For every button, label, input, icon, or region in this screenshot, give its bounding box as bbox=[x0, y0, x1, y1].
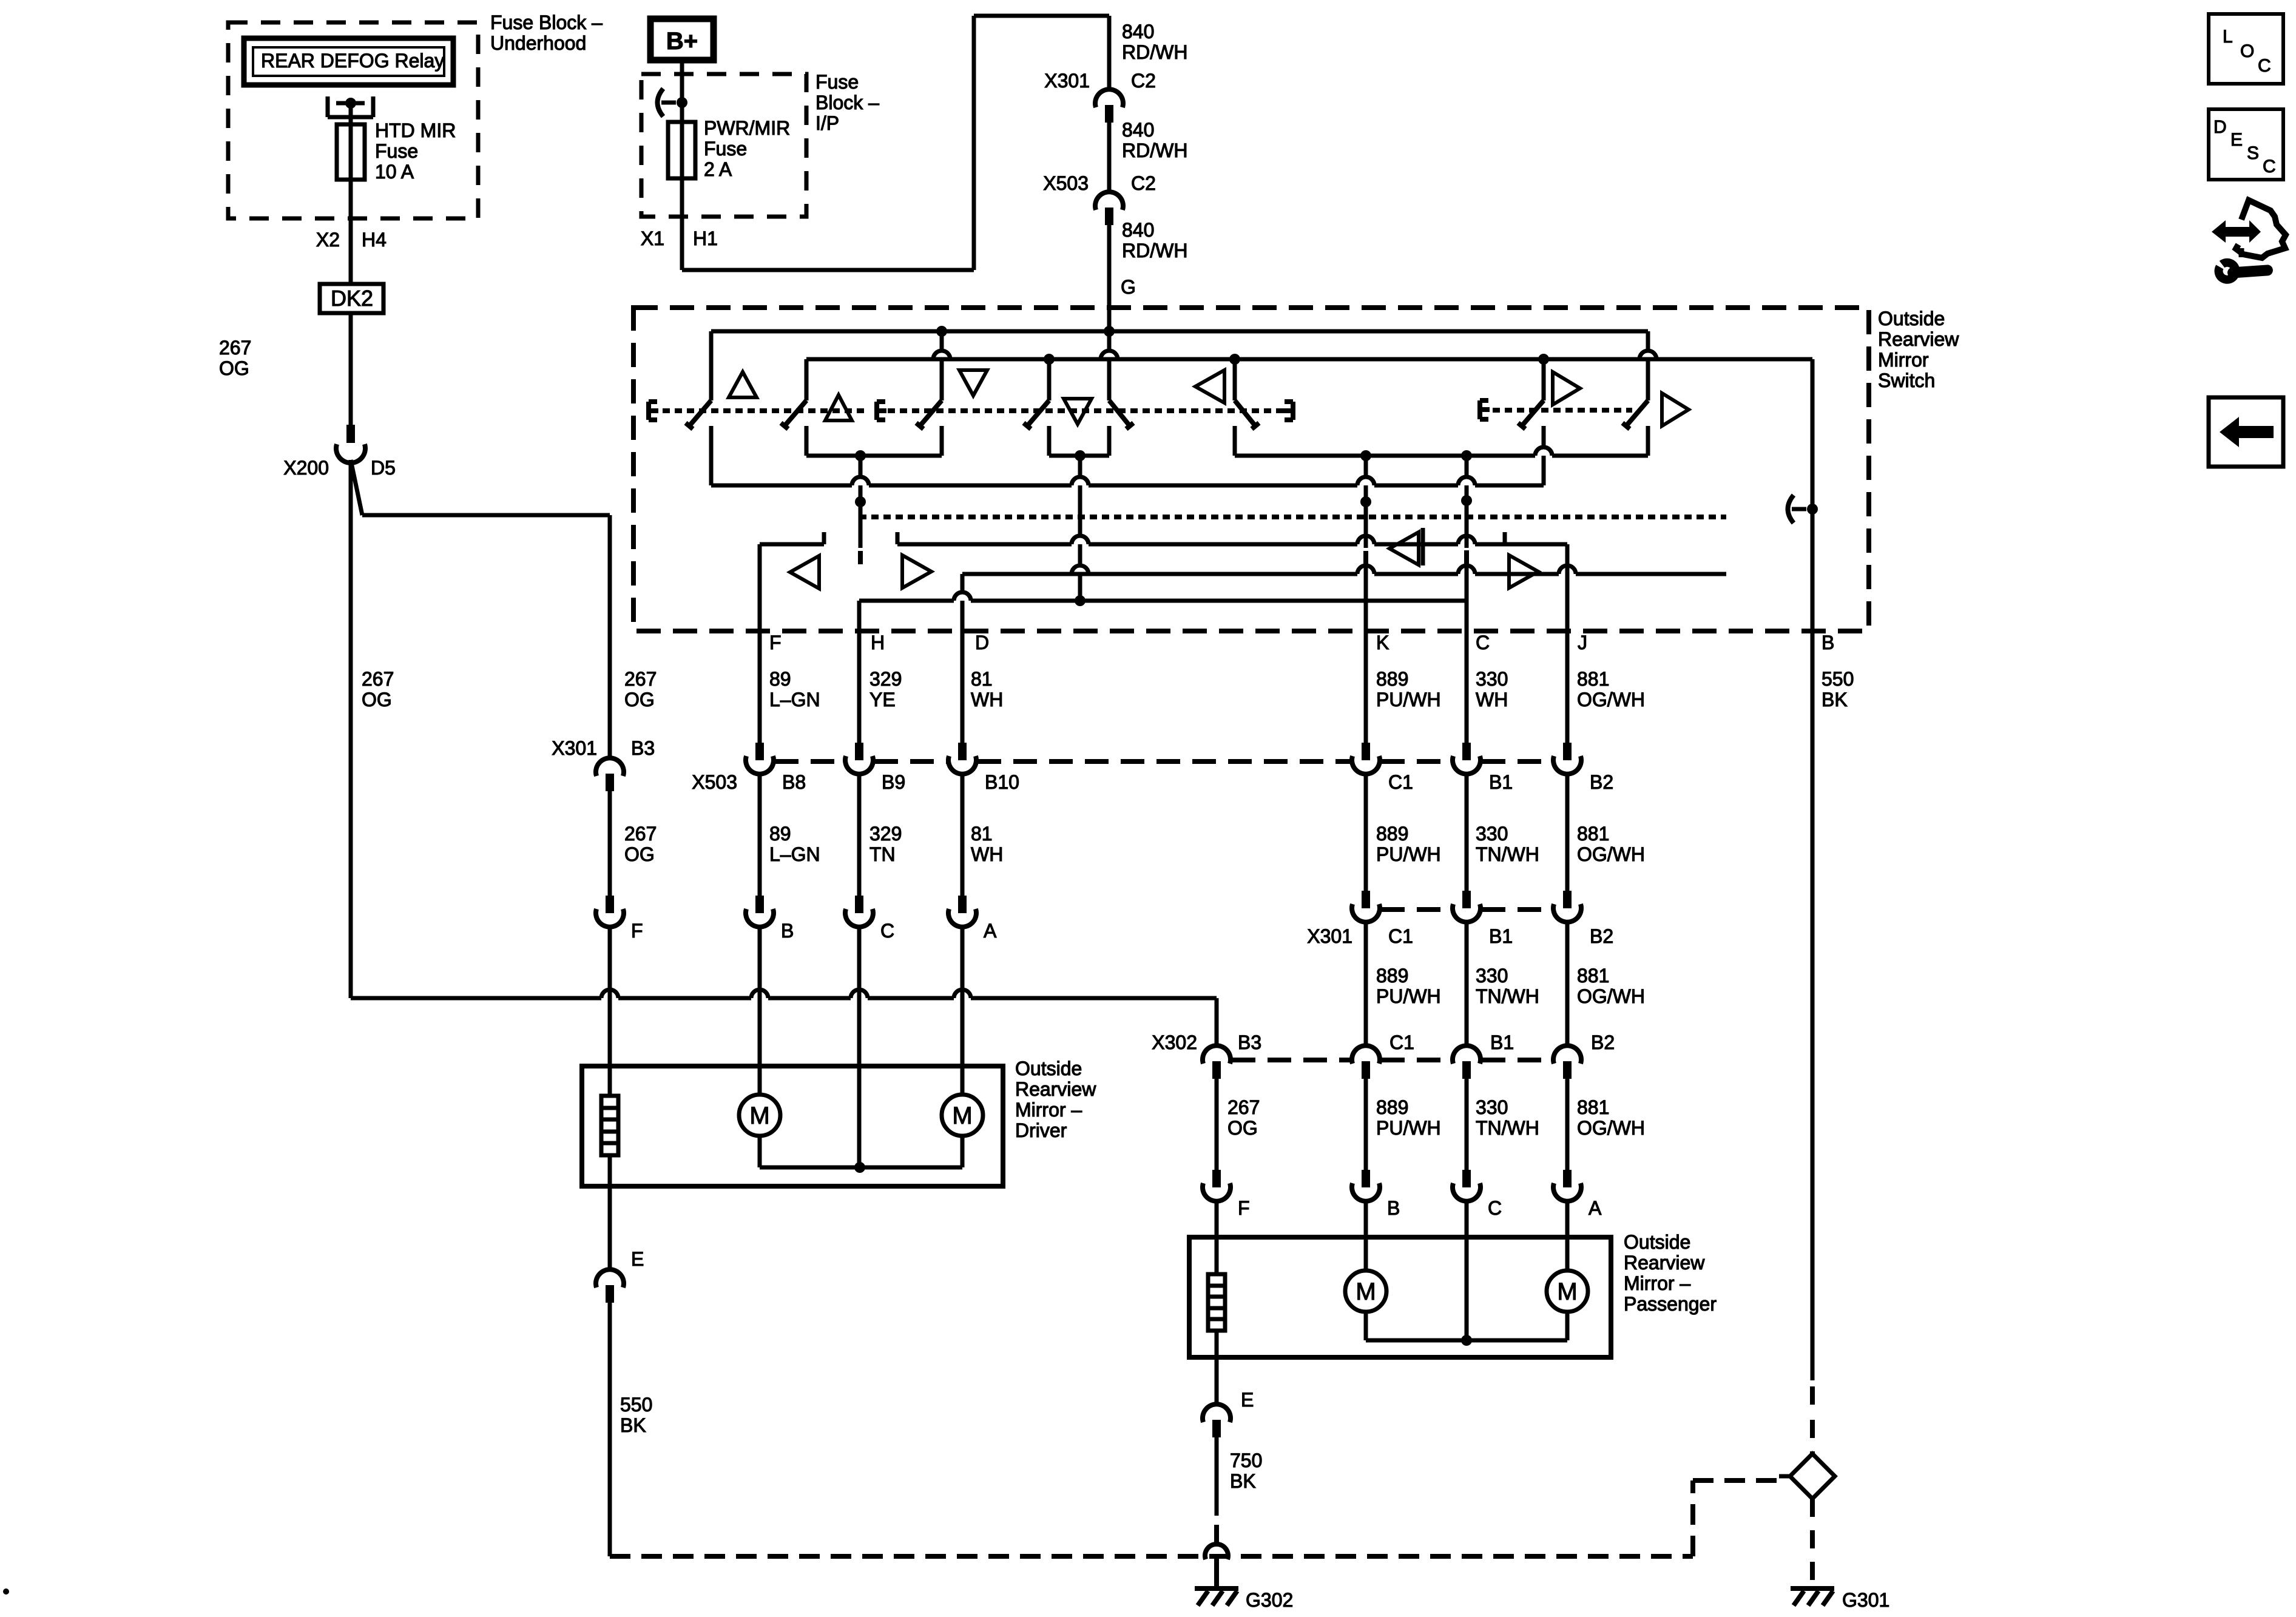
svg-text:L: L bbox=[2223, 27, 2233, 47]
wires below X503 row bbox=[760, 774, 1567, 896]
label pin B bbox=[1822, 632, 1834, 653]
svg-text:X301: X301 bbox=[1044, 70, 1090, 92]
svg-text:Passenger: Passenger bbox=[1624, 1293, 1717, 1315]
outside rearview mirror driver box bbox=[582, 1066, 1003, 1186]
svg-text:WH: WH bbox=[971, 843, 1003, 865]
label driver pin C bbox=[880, 920, 894, 942]
svg-text:840: 840 bbox=[1122, 119, 1154, 141]
wires below X302 row bbox=[1217, 1079, 1567, 1170]
connector X301 B1 bbox=[1453, 891, 1481, 922]
label 889 PU/WH (1) bbox=[1376, 668, 1441, 711]
label pin K bbox=[1376, 632, 1389, 653]
row2 right fixed bar bbox=[1421, 528, 1425, 565]
connector passenger E bbox=[1203, 1404, 1231, 1437]
svg-text:B: B bbox=[781, 920, 794, 942]
row2 line to H wire bbox=[859, 592, 1467, 606]
svg-text:889: 889 bbox=[1376, 823, 1408, 845]
row2 line (upper) bbox=[897, 532, 1567, 544]
label 881 OG/WH (4) bbox=[1577, 1096, 1645, 1139]
svg-text:267: 267 bbox=[362, 668, 394, 690]
svg-text:OG/WH: OG/WH bbox=[1577, 843, 1645, 865]
wire driver heater out to E bbox=[608, 1155, 612, 1270]
ground G301 bbox=[1791, 1588, 1889, 1611]
svg-text:2 A: 2 A bbox=[704, 158, 732, 180]
svg-text:REAR DEFOG Relay: REAR DEFOG Relay bbox=[261, 50, 444, 72]
switch SW5 contact bbox=[1101, 331, 1133, 456]
svg-text:K: K bbox=[1376, 632, 1389, 653]
connector X301 B2 bbox=[1553, 891, 1581, 922]
triangle down (SW3) bbox=[959, 370, 987, 396]
label X302 / B3 bbox=[1152, 1031, 1261, 1053]
svg-text:B9: B9 bbox=[882, 771, 905, 793]
mech link row1b left bracket bbox=[1480, 400, 1490, 419]
svg-text:Driver: Driver bbox=[1015, 1119, 1067, 1141]
wire 750 BK passenger bbox=[1215, 1437, 1219, 1545]
label 889 PU/WH (2) bbox=[1376, 823, 1441, 865]
svg-text:L–GN: L–GN bbox=[769, 689, 820, 711]
label 81 WH (lower) bbox=[971, 823, 1003, 865]
svg-text:267: 267 bbox=[624, 668, 657, 690]
svg-text:840: 840 bbox=[1122, 21, 1154, 42]
svg-text:C: C bbox=[2258, 56, 2271, 76]
mech link row1 dashed (left) bbox=[663, 408, 865, 413]
passenger motor common bus bbox=[1366, 1312, 1567, 1346]
icon harness arrow bbox=[2212, 220, 2261, 243]
svg-text:Block –: Block – bbox=[815, 92, 879, 113]
fuse F1: HTD MIR Fuse 10A bbox=[337, 124, 365, 180]
svg-text:Underhood: Underhood bbox=[490, 32, 586, 54]
svg-text:I/P: I/P bbox=[815, 112, 839, 134]
icon wrench bbox=[2218, 260, 2268, 280]
triangle up (SW1) bbox=[729, 372, 757, 397]
icon back-arrow box bbox=[2209, 397, 2283, 467]
label pin H bbox=[871, 632, 885, 653]
label wire 267 OG (upper left) bbox=[219, 337, 251, 379]
svg-text:HTD MIR: HTD MIR bbox=[375, 120, 456, 141]
svg-text:330: 330 bbox=[1476, 1096, 1508, 1118]
relay K: REAR DEFOG Relay box bbox=[244, 38, 453, 85]
svg-text:OG/WH: OG/WH bbox=[1577, 985, 1645, 1007]
splice diamond S301 bbox=[1779, 1454, 1835, 1499]
svg-text:330: 330 bbox=[1476, 668, 1508, 690]
svg-text:TN: TN bbox=[869, 843, 896, 865]
label 550 BK (right) bbox=[1822, 668, 1854, 711]
triangle right (SW8) bbox=[1662, 393, 1689, 426]
triangle right (row2 driver) bbox=[902, 555, 931, 588]
svg-text:C: C bbox=[880, 920, 894, 942]
connector passenger mirror pin C bbox=[1453, 1170, 1481, 1201]
svg-text:B2: B2 bbox=[1590, 771, 1613, 793]
switch feed bus line 1 bbox=[711, 326, 1648, 337]
driver motor common bus bbox=[760, 1136, 962, 1173]
connector X503 B9 bbox=[845, 743, 873, 774]
svg-text:RD/WH: RD/WH bbox=[1122, 240, 1187, 262]
label X302 pin B1 bbox=[1490, 1031, 1514, 1053]
label X503 pin C1 bbox=[1388, 771, 1413, 793]
svg-text:C2: C2 bbox=[1131, 172, 1156, 194]
svg-text:OG/WH: OG/WH bbox=[1577, 689, 1645, 711]
connector passenger mirror pin A bbox=[1553, 1170, 1581, 1201]
label X2 / H4 bbox=[316, 229, 387, 251]
svg-text:G302: G302 bbox=[1246, 1589, 1293, 1611]
label X301 pin C1 bbox=[1388, 925, 1413, 947]
triangle left (row2 driver) bbox=[790, 556, 819, 589]
svg-text:267: 267 bbox=[219, 337, 251, 359]
svg-text:O: O bbox=[2240, 41, 2254, 61]
row1 bottom bus A bbox=[1235, 447, 1648, 461]
svg-text:X302: X302 bbox=[1152, 1031, 1197, 1053]
triangle left (SW6) bbox=[1195, 370, 1224, 403]
connector X302 B2 bbox=[1553, 1045, 1581, 1079]
connector X200 D5 bbox=[336, 425, 365, 463]
connector driver mirror pin C bbox=[845, 896, 873, 927]
svg-text:PU/WH: PU/WH bbox=[1376, 843, 1441, 865]
svg-text:BK: BK bbox=[1822, 689, 1848, 711]
svg-text:Mirror –: Mirror – bbox=[1624, 1272, 1690, 1294]
fuse block underhood box (dashed) bbox=[228, 22, 478, 218]
triangle down (SW4) bbox=[1064, 399, 1092, 424]
svg-text:881: 881 bbox=[1577, 1096, 1609, 1118]
label X503 pin B10 bbox=[985, 771, 1019, 793]
svg-text:F: F bbox=[769, 632, 782, 653]
svg-text:Fuse: Fuse bbox=[704, 138, 747, 160]
motor M driver 1 bbox=[739, 1095, 780, 1136]
U-link SW4-SW5 bbox=[1049, 450, 1109, 461]
svg-text:Fuse Block –: Fuse Block – bbox=[490, 12, 603, 33]
svg-text:C: C bbox=[1488, 1197, 1502, 1219]
switch feed bus line 2 bbox=[806, 354, 1812, 365]
svg-text:Outside: Outside bbox=[1015, 1058, 1082, 1079]
svg-text:A: A bbox=[1589, 1197, 1602, 1219]
svg-text:B3: B3 bbox=[1238, 1031, 1261, 1053]
svg-text:Outside: Outside bbox=[1878, 308, 1945, 329]
wires passenger pins into box bbox=[1217, 1201, 1567, 1340]
svg-text:PWR/MIR: PWR/MIR bbox=[704, 117, 790, 139]
label X301 pin B2 bbox=[1590, 925, 1613, 947]
row2 fixed bracket F bbox=[760, 532, 824, 544]
svg-text:G301: G301 bbox=[1842, 1589, 1889, 1611]
connector driver E bbox=[596, 1269, 624, 1303]
switch SW2 up contact bbox=[781, 359, 806, 456]
label 267 OG (below X301 B3) bbox=[624, 823, 657, 865]
label 889 PU/WH (3) bbox=[1376, 965, 1441, 1007]
svg-text:267: 267 bbox=[1227, 1096, 1260, 1118]
label Outside Rearview Mirror - Passenger bbox=[1624, 1231, 1717, 1315]
svg-text:B1: B1 bbox=[1490, 1031, 1514, 1053]
label wire 840 RD/WH (3) bbox=[1122, 219, 1187, 262]
wire switch pin H down bbox=[857, 601, 862, 743]
svg-text:M: M bbox=[952, 1102, 972, 1129]
label X302 pin B2 bbox=[1591, 1031, 1615, 1053]
mech link row1 dashed (mid) bbox=[888, 408, 1289, 413]
svg-text:D5: D5 bbox=[371, 457, 396, 479]
wire B+ down bbox=[680, 63, 684, 180]
label passenger pin A bbox=[1589, 1197, 1602, 1219]
connector passenger mirror pin B bbox=[1352, 1170, 1380, 1201]
motor M passenger 1 bbox=[1345, 1271, 1386, 1312]
row2 line to D wire bbox=[962, 565, 1726, 574]
mech link row1 left bracket bbox=[649, 402, 658, 420]
svg-text:RD/WH: RD/WH bbox=[1122, 41, 1187, 63]
svg-text:E: E bbox=[2230, 130, 2243, 150]
svg-text:OG: OG bbox=[624, 689, 655, 711]
svg-text:B: B bbox=[1822, 632, 1834, 653]
drop wire from U2 bbox=[1072, 456, 1089, 601]
outside rearview mirror switch box (dashed) bbox=[633, 308, 1869, 631]
svg-text:840: 840 bbox=[1122, 219, 1154, 241]
icon connector outline bbox=[2236, 200, 2286, 258]
wire 840 to switch (G) bbox=[1107, 225, 1112, 331]
label PWR/MIR Fuse 2 A bbox=[704, 117, 790, 180]
svg-text:D: D bbox=[975, 632, 989, 653]
label Outside Rearview Mirror - Driver bbox=[1015, 1058, 1096, 1141]
label wire 840 RD/WH (2) bbox=[1122, 119, 1187, 161]
svg-text:B1: B1 bbox=[1489, 925, 1513, 947]
svg-text:Outside: Outside bbox=[1624, 1231, 1690, 1253]
svg-text:B8: B8 bbox=[782, 771, 806, 793]
label 881 OG/WH (2) bbox=[1577, 823, 1645, 865]
label pin C bbox=[1476, 632, 1490, 653]
label 550 BK (driver) bbox=[620, 1394, 652, 1436]
connector X503 B10 bbox=[948, 743, 976, 774]
connector passenger mirror pin F bbox=[1203, 1170, 1231, 1201]
row2 stub down to J bbox=[1565, 544, 1570, 590]
svg-text:Fuse: Fuse bbox=[375, 140, 418, 162]
label Outside Rearview Mirror Switch bbox=[1878, 308, 1959, 391]
fuse F2: PWR/MIR Fuse 2A bbox=[668, 122, 695, 178]
svg-text:H: H bbox=[871, 632, 885, 653]
svg-text:10 A: 10 A bbox=[375, 161, 414, 183]
label 330 TN/WH (3) bbox=[1476, 965, 1539, 1007]
switch SW3 down contact bbox=[916, 331, 950, 456]
label X503 pin B9 bbox=[882, 771, 905, 793]
svg-text:E: E bbox=[1241, 1389, 1254, 1411]
wire 267 OG below X301 B3 bbox=[608, 791, 612, 896]
inline label DK2 box bbox=[320, 284, 383, 313]
switch SW6 left contact bbox=[1235, 359, 1259, 456]
label 89 L-GN (upper) bbox=[769, 668, 820, 711]
label 889 PU/WH (4) bbox=[1376, 1096, 1441, 1139]
svg-text:B: B bbox=[1387, 1197, 1400, 1219]
power feed B+ box bbox=[650, 19, 714, 60]
connector driver mirror pin B bbox=[746, 896, 774, 927]
svg-text:YE: YE bbox=[869, 689, 896, 711]
svg-text:J: J bbox=[1578, 632, 1587, 653]
svg-text:267: 267 bbox=[624, 823, 657, 845]
svg-text:750: 750 bbox=[1230, 1450, 1262, 1471]
connector row X302 dashed link bbox=[1232, 1058, 1552, 1062]
wire relay to fuse bbox=[349, 103, 353, 181]
svg-text:TN/WH: TN/WH bbox=[1476, 985, 1539, 1007]
motor M passenger 2 bbox=[1547, 1271, 1588, 1312]
svg-text:330: 330 bbox=[1476, 965, 1508, 987]
svg-text:G: G bbox=[1121, 276, 1136, 298]
label driver pin A bbox=[984, 920, 997, 942]
label X200 / D5 bbox=[283, 457, 396, 479]
svg-text:889: 889 bbox=[1376, 965, 1408, 987]
svg-text:889: 889 bbox=[1376, 668, 1408, 690]
connector X301 C1 bbox=[1352, 891, 1380, 922]
label X503 / C2 bbox=[1043, 172, 1156, 194]
label X301 / B3 bbox=[552, 737, 655, 759]
drop wire from bus A at K bbox=[1357, 456, 1374, 743]
ground tap arc G302 bbox=[1205, 1544, 1228, 1559]
svg-text:881: 881 bbox=[1577, 668, 1609, 690]
label 330 TN/WH (2) bbox=[1476, 823, 1539, 865]
svg-text:B1: B1 bbox=[1489, 771, 1513, 793]
ground G302 bbox=[1195, 1558, 1293, 1611]
svg-text:A: A bbox=[984, 920, 997, 942]
wire DK2 to X200 bbox=[349, 313, 353, 425]
connector X503 B2 bbox=[1553, 743, 1581, 774]
connector row X503 dashed link bbox=[775, 759, 1552, 764]
label wire 840 RD/WH (1) bbox=[1122, 21, 1187, 63]
label X1 / H1 bbox=[641, 228, 718, 249]
svg-text:X1: X1 bbox=[641, 228, 664, 249]
svg-text:889: 889 bbox=[1376, 1096, 1408, 1118]
label X503 bbox=[692, 771, 737, 793]
ground bus dashed bbox=[610, 1554, 1693, 1559]
wire switch pin J down bbox=[1565, 590, 1570, 743]
icon DESC box bbox=[2209, 109, 2283, 180]
svg-text:C1: C1 bbox=[1388, 925, 1413, 947]
svg-text:X503: X503 bbox=[692, 771, 737, 793]
svg-text:H1: H1 bbox=[693, 228, 718, 249]
svg-text:S: S bbox=[2247, 143, 2259, 163]
icon LOC box bbox=[2209, 14, 2283, 84]
wire fuse to X2-H4 bbox=[349, 180, 353, 284]
svg-text:Rearview: Rearview bbox=[1624, 1252, 1705, 1274]
svg-text:B2: B2 bbox=[1590, 925, 1613, 947]
label X301 (row) bbox=[1307, 925, 1352, 947]
wire passenger heater out to E bbox=[1215, 1331, 1219, 1405]
label wire 267 OG (left column) bbox=[362, 668, 394, 711]
label 81 WH (upper) bbox=[971, 668, 1003, 711]
triangle left (row2 passenger) bbox=[1389, 532, 1419, 565]
label 330 TN/WH (4) bbox=[1476, 1096, 1539, 1139]
wire 840 between X301 and X503 bbox=[1107, 123, 1112, 192]
wires below X301 row bbox=[1366, 922, 1567, 1046]
svg-text:OG: OG bbox=[219, 357, 249, 379]
switch SW1 up-driver contact bbox=[686, 331, 711, 485]
svg-text:C1: C1 bbox=[1388, 771, 1413, 793]
svg-text:89: 89 bbox=[769, 823, 791, 845]
label pin D bbox=[975, 632, 989, 653]
svg-text:329: 329 bbox=[869, 823, 902, 845]
svg-text:550: 550 bbox=[620, 1394, 652, 1416]
svg-text:L–GN: L–GN bbox=[769, 843, 820, 865]
label X301 pin B1 bbox=[1489, 925, 1513, 947]
connector X503 B8 bbox=[746, 743, 774, 774]
label 330 WH bbox=[1476, 668, 1508, 711]
mech link row1 right bracket bbox=[1283, 402, 1293, 420]
mech link row1b dashed bbox=[1493, 408, 1632, 413]
outside rearview mirror passenger box bbox=[1189, 1237, 1611, 1357]
svg-text:DK2: DK2 bbox=[331, 286, 373, 311]
svg-text:881: 881 bbox=[1577, 823, 1609, 845]
bus 267 OG to passenger mirror bbox=[351, 990, 1217, 1046]
label driver pin B bbox=[781, 920, 794, 942]
mech link row2 dashed bbox=[859, 515, 1726, 519]
wires driver pins into box bbox=[610, 927, 962, 1167]
svg-text:Rearview: Rearview bbox=[1878, 328, 1959, 350]
dashed below diamond to G301 bbox=[1810, 1499, 1815, 1585]
label passenger pin C bbox=[1488, 1197, 1502, 1219]
svg-text:M: M bbox=[749, 1102, 769, 1129]
switch SW8 right contact bbox=[1622, 331, 1656, 456]
triangle up (SW2) bbox=[825, 395, 852, 420]
label pin G bbox=[1121, 276, 1136, 298]
svg-text:550: 550 bbox=[1822, 668, 1854, 690]
svg-text:Rearview: Rearview bbox=[1015, 1078, 1096, 1100]
label Fuse Block - Underhood bbox=[490, 12, 603, 54]
label pin J bbox=[1578, 632, 1587, 653]
svg-text:M: M bbox=[1356, 1278, 1376, 1305]
label 750 BK bbox=[1230, 1450, 1262, 1492]
page corner dot bbox=[3, 1588, 9, 1595]
wire X200 branch to driver heater column bbox=[351, 460, 610, 758]
label Fuse Block - I/P bbox=[815, 71, 879, 134]
svg-text:RD/WH: RD/WH bbox=[1122, 140, 1187, 161]
svg-text:81: 81 bbox=[971, 823, 993, 845]
svg-text:X200: X200 bbox=[283, 457, 329, 479]
svg-text:329: 329 bbox=[869, 668, 902, 690]
U-link SW2-SW3 bbox=[806, 450, 942, 461]
svg-text:BK: BK bbox=[1230, 1470, 1256, 1492]
row1 bottom bus B bbox=[711, 477, 1544, 485]
svg-text:89: 89 bbox=[769, 668, 791, 690]
svg-text:F: F bbox=[1238, 1197, 1250, 1219]
svg-text:PU/WH: PU/WH bbox=[1376, 985, 1441, 1007]
connector X503 B1 bbox=[1453, 743, 1481, 774]
svg-text:WH: WH bbox=[1476, 689, 1508, 711]
svg-text:X2: X2 bbox=[316, 229, 340, 251]
svg-text:TN/WH: TN/WH bbox=[1476, 843, 1539, 865]
label 329 TN bbox=[869, 823, 902, 865]
wire switch pin F down bbox=[758, 544, 762, 743]
connector row X301 dashed link bbox=[1381, 907, 1552, 912]
svg-text:M: M bbox=[1557, 1278, 1577, 1305]
wire 550 BK switch B down bbox=[1811, 631, 1815, 1454]
svg-text:C2: C2 bbox=[1131, 70, 1156, 92]
svg-text:X301: X301 bbox=[1307, 925, 1352, 947]
label 329 YE bbox=[869, 668, 902, 711]
label passenger pin E bbox=[1241, 1389, 1254, 1411]
label driver pin E bbox=[631, 1248, 644, 1270]
svg-text:81: 81 bbox=[971, 668, 993, 690]
connector X302 C1 bbox=[1352, 1045, 1380, 1079]
mech link row1 middle bracket E bbox=[877, 402, 886, 420]
connector X302 B1 bbox=[1453, 1045, 1481, 1079]
connector X301 B3 bbox=[596, 758, 624, 791]
svg-text:X301: X301 bbox=[552, 737, 597, 759]
switch SW4 down contact bbox=[1024, 359, 1049, 456]
fuse block IP box (dashed) bbox=[641, 74, 806, 217]
label passenger pin B bbox=[1387, 1197, 1400, 1219]
svg-text:WH: WH bbox=[971, 689, 1003, 711]
label X302 pin C1 bbox=[1389, 1031, 1414, 1053]
bus tap hook at B+ bbox=[658, 89, 688, 116]
relay output pin bracket bbox=[328, 96, 373, 117]
bus tap hook on B wire bbox=[1788, 495, 1818, 523]
svg-text:B2: B2 bbox=[1591, 1031, 1615, 1053]
svg-text:Switch: Switch bbox=[1878, 370, 1935, 391]
label X301 / C2 bbox=[1044, 70, 1156, 92]
label 881 OG/WH (1) bbox=[1577, 668, 1645, 711]
svg-text:PU/WH: PU/WH bbox=[1376, 1117, 1441, 1139]
wire 550 BK driver bbox=[608, 1303, 612, 1556]
connector X302 B3 bbox=[1203, 1045, 1231, 1079]
